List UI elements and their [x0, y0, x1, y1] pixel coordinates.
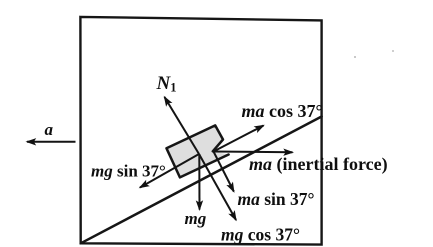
svg-text:mg sin 37°: mg sin 37° [91, 162, 166, 181]
svg-text:mg cos 37°: mg cos 37° [221, 225, 300, 245]
svg-text:mg: mg [185, 209, 207, 228]
force arrow ma inertial (horizontal right) [214, 151, 293, 154]
block on incline (fill with notch cut out) [167, 125, 229, 177]
svg-text:ma sin 37°: ma sin 37° [238, 189, 315, 209]
force arrow mg cos 37 (perpendicular into slope) [199, 154, 236, 220]
svg-text:a: a [45, 120, 54, 139]
svg-text:ma (inertial force): ma (inertial force) [249, 154, 388, 175]
svg-text:N1: N1 [156, 73, 177, 95]
force arrow ma cos 37 (up the slope) [214, 126, 264, 152]
svg-text:ma cos 37°: ma cos 37° [242, 101, 323, 121]
speck 1 [354, 56, 356, 58]
acceleration arrow a (left, outside box) [27, 141, 76, 143]
incline surface line [81, 117, 322, 244]
force arrow mg sin 37 (down the slope) [140, 154, 199, 188]
speck 2 [392, 50, 394, 52]
outer box frame [80, 17, 321, 245]
force arrow ma sin 37 (perpendicular into slope) [214, 152, 234, 192]
block border (open path, notch side bent) [167, 125, 229, 177]
force arrow N1 (normal) [165, 97, 200, 154]
force arrow mg (weight, vertical down) [198, 154, 200, 210]
